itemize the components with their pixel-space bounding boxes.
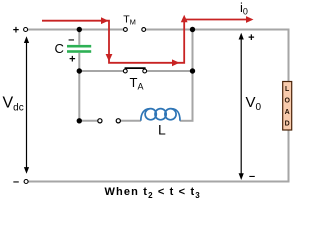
inductor L entry tail — [141, 109, 150, 121]
wire capacitor top lead — [78, 30, 80, 45]
svg-text:When t2 < t < t3: When t2 < t < t3 — [105, 186, 201, 200]
red arrowhead down on left vertical — [106, 54, 113, 62]
wire bottom — [28, 181, 289, 183]
wire middle vertical — [192, 30, 194, 121]
switch TA terminal right — [143, 69, 147, 73]
svg-text:D: D — [285, 121, 290, 128]
wire right upper — [288, 29, 290, 83]
wire right lower — [288, 130, 290, 182]
node top of middle vertical — [190, 27, 195, 32]
red arrowhead i0 — [246, 16, 254, 23]
wire switch to inductor — [120, 120, 141, 122]
svg-text:–: – — [68, 34, 74, 46]
terminal - (dc source bottom) — [24, 180, 28, 184]
node lower branch — [77, 118, 82, 123]
terminal + (dc source top) — [24, 28, 28, 32]
wire inductor to middle vertical — [180, 120, 194, 122]
inductor L exit tail — [172, 109, 180, 121]
inductor L coil loop 3 — [165, 109, 176, 120]
auxiliary switch terminal right — [116, 119, 120, 123]
switch TM terminal right — [142, 28, 146, 32]
svg-text:+: + — [69, 54, 75, 66]
switch TM terminal left — [124, 28, 128, 32]
wire capacitor bottom lead down to lower branch — [78, 53, 80, 121]
switch TA closed bar — [125, 67, 146, 69]
svg-text:+: + — [248, 32, 254, 44]
inductor L coil loop 2 — [155, 109, 166, 120]
svg-text:L: L — [285, 86, 290, 93]
node top of capacitor branch — [77, 27, 82, 32]
switch TA terminal left — [123, 69, 127, 73]
capacitor C1 bottom plate — [67, 50, 91, 53]
load box — [283, 82, 292, 131]
wire top-right segment — [146, 29, 289, 31]
svg-text:–: – — [249, 171, 255, 183]
wire node B to TA left — [79, 70, 123, 72]
svg-text:–: – — [13, 176, 19, 188]
inductor L coil loop 1 — [145, 109, 156, 120]
svg-text:L: L — [158, 122, 166, 138]
node TA right junction — [190, 68, 195, 73]
wire lower node to switch — [79, 120, 98, 122]
wire top-left segment — [28, 29, 124, 31]
V0 arrow — [240, 38, 242, 175]
red current path polyline — [42, 20, 248, 63]
svg-text:O: O — [284, 98, 290, 105]
red arrowhead up on right vertical — [181, 15, 188, 22]
node B capacitor bottom — [77, 68, 82, 73]
red arrowhead right on top-left segment — [101, 17, 109, 24]
red arrowhead right on middle horizontal — [172, 59, 180, 66]
Vdc arrow — [26, 41, 28, 169]
svg-text:A: A — [285, 109, 290, 116]
capacitor C1 top plate — [67, 45, 91, 48]
auxiliary switch terminal left — [98, 119, 102, 123]
wire TA right to middle vertical — [147, 70, 193, 72]
svg-text:+: + — [13, 24, 19, 36]
svg-text:C: C — [55, 41, 64, 56]
